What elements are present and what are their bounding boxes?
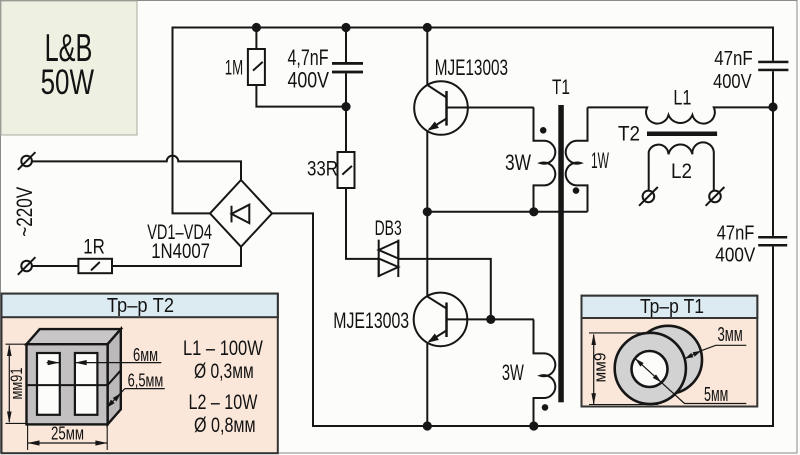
svg-text:MJE13003: MJE13003 bbox=[435, 55, 508, 80]
svg-text:1R: 1R bbox=[83, 236, 105, 259]
svg-text:400V: 400V bbox=[288, 67, 330, 92]
svg-text:400V: 400V bbox=[713, 71, 752, 93]
svg-text:6,5мм: 6,5мм bbox=[128, 371, 164, 391]
svg-text:1W: 1W bbox=[591, 148, 609, 173]
svg-text:5мм: 5мм bbox=[704, 384, 728, 406]
svg-text:47nF: 47nF bbox=[717, 223, 755, 245]
svg-text:3W: 3W bbox=[505, 150, 531, 175]
svg-text:3W: 3W bbox=[502, 360, 524, 385]
svg-text:мм9: мм9 bbox=[591, 353, 610, 383]
svg-text:Ø 0,8мм: Ø 0,8мм bbox=[194, 414, 256, 437]
svg-text:400V: 400V bbox=[715, 244, 756, 266]
svg-text:3мм: 3мм bbox=[718, 324, 743, 346]
svg-text:25мм: 25мм bbox=[51, 424, 84, 444]
svg-text:1M: 1M bbox=[225, 56, 243, 79]
svg-text:4,7nF: 4,7nF bbox=[288, 45, 329, 70]
svg-text:1N4007: 1N4007 bbox=[151, 240, 210, 263]
svg-text:MJE13003: MJE13003 bbox=[333, 308, 409, 333]
svg-text:Тр–р Т1: Тр–р Т1 bbox=[640, 296, 704, 318]
svg-text:Ø 0,3мм: Ø 0,3мм bbox=[194, 360, 254, 383]
svg-text:~220V: ~220V bbox=[12, 187, 37, 237]
svg-text:47nF: 47nF bbox=[714, 48, 753, 70]
svg-text:T2: T2 bbox=[618, 123, 640, 146]
svg-text:33R: 33R bbox=[307, 158, 338, 181]
svg-text:L2: L2 bbox=[671, 160, 692, 183]
svg-text:DB3: DB3 bbox=[375, 217, 402, 240]
svg-text:6мм: 6мм bbox=[133, 345, 158, 365]
svg-text:Тр–р Т2: Тр–р Т2 bbox=[107, 295, 174, 317]
svg-text:L1: L1 bbox=[673, 86, 691, 109]
svg-text:L2 – 10W: L2 – 10W bbox=[189, 391, 258, 414]
svg-text:мм91: мм91 bbox=[7, 368, 26, 400]
svg-text:T1: T1 bbox=[552, 76, 570, 99]
svg-text:50W: 50W bbox=[41, 63, 94, 102]
svg-text:L1 – 100W: L1 – 100W bbox=[183, 337, 263, 360]
